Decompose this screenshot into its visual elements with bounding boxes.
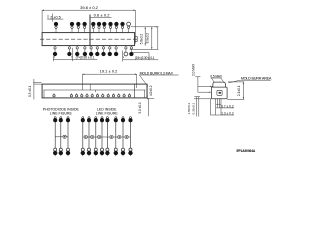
svg-text:EP1A90064A: EP1A90064A — [236, 149, 255, 153]
front view center tick — [94, 90, 96, 92]
terminal line at x=82.8 — [82, 118, 84, 149]
end view lead stub — [215, 99, 217, 115]
terminal line at x=55.2 — [54, 118, 56, 149]
terminal line at x=130.5 — [130, 118, 132, 149]
dimension 2.30 pin pitch — [122, 51, 124, 62]
package top view body — [42, 33, 135, 46]
terminal line at x=123 — [122, 118, 124, 149]
svg-text:8.9±0.2: 8.9±0.2 — [146, 33, 150, 44]
dimension 0.3 left mold burr — [33, 81, 41, 83]
package top view end tab — [135, 37, 138, 42]
svg-text:2 ±0.5: 2 ±0.5 — [50, 15, 61, 19]
svg-text:19.1 ± 0.2: 19.1 ± 0.2 — [100, 69, 119, 74]
bottom row pins (leads down) — [54, 46, 56, 53]
element symbol at x=92.2 — [91, 135, 94, 138]
dimension 6.90 pin pitch group — [53, 59, 97, 61]
svg-text:LINE FIGURE: LINE FIGURE — [50, 111, 73, 115]
element symbol at x=111.5 — [110, 135, 113, 138]
dimension 19.1 led section — [83, 73, 137, 75]
end view dome top — [213, 82, 226, 87]
vertical dimension 8.9 lead span — [151, 27, 153, 50]
dimension 0.6 seam gap — [90, 16, 112, 18]
terminal line at x=107.4 — [106, 118, 108, 149]
front view lead ends — [53, 95, 55, 97]
terminal line at x=115.8 — [115, 118, 117, 149]
outer boundary line right of top view — [157, 27, 159, 50]
element symbol at x=99.2 — [98, 135, 101, 138]
vertical dimension 5.8 body width — [144, 27, 146, 46]
element symbol at x=85.8 — [84, 135, 87, 138]
top row pins (leads up) — [55, 26, 57, 33]
svg-text:5.8±0.2: 5.8±0.2 — [139, 34, 143, 45]
end view base body — [211, 87, 227, 99]
dimension 3.0 lead length — [147, 98, 154, 100]
svg-text:0.35±0.1: 0.35±0.1 — [191, 102, 195, 114]
connection rail — [55, 136, 68, 138]
svg-text:MOLD BURR AREA: MOLD BURR AREA — [241, 76, 272, 80]
terminal line at x=95.8 — [95, 118, 97, 149]
element symbol at x=64.6 — [63, 135, 66, 138]
svg-text:2.1±0.1: 2.1±0.1 — [237, 85, 241, 96]
end view center window — [217, 90, 222, 95]
terminal line at x=60.8 — [60, 118, 62, 149]
connection rail — [83, 136, 131, 138]
svg-text:2.0 MAX: 2.0 MAX — [191, 63, 195, 76]
terminal line at x=89 — [88, 118, 90, 149]
svg-text:39.8 ± 0.2: 39.8 ± 0.2 — [80, 5, 99, 10]
terminal line at x=102 — [101, 118, 103, 149]
package centerline — [40, 38, 139, 40]
terminal line at x=68.0 — [67, 118, 69, 149]
dimension 4.0 front height — [146, 84, 148, 98]
svg-text:(19×)2.30 ± 0.1: (19×)2.30 ± 0.1 — [135, 56, 155, 60]
front view step line — [44, 89, 146, 91]
svg-text:0.5 MAX: 0.5 MAX — [210, 74, 222, 78]
package mid seam lines — [88, 15, 90, 46]
svg-text:4.0±0.2: 4.0±0.2 — [149, 85, 153, 96]
dimension 2.1 end view right — [228, 81, 244, 83]
element symbol at x=119.3 — [118, 135, 121, 138]
dimension 39.8 overall length — [42, 9, 135, 11]
svg-text:LINE FIGURE: LINE FIGURE — [96, 111, 119, 115]
svg-text:0.6 ± 0.2: 0.6 ± 0.2 — [94, 12, 111, 17]
package front view body — [42, 84, 147, 98]
svg-text:(7×)6.90 ± 0.1: (7×)6.90 ± 0.1 — [76, 56, 95, 60]
element symbol at x=126.6 — [125, 135, 128, 138]
top view right side extension lines — [131, 26, 159, 28]
front view body joint lines — [134, 84, 136, 98]
svg-text:0.3 ±0.1: 0.3 ±0.1 — [28, 85, 32, 97]
dimension 2 +-0.5 first pin offset — [47, 18, 63, 20]
svg-text:3.0 ±0.1: 3.0 ±0.1 — [138, 102, 142, 114]
